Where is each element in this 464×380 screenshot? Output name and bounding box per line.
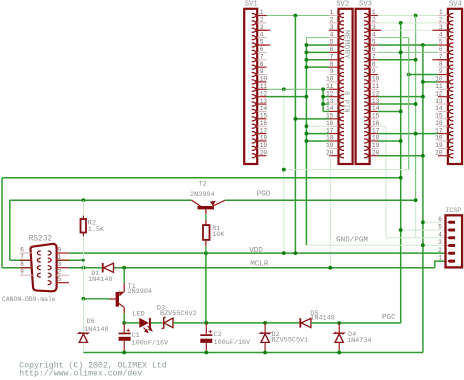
svg-text:19: 19: [326, 142, 334, 149]
wire row17 SV2.17: [306, 133, 329, 135]
wire GND/PGM pale rail y245: [306, 244, 445, 246]
svg-text:1: 1: [439, 9, 443, 16]
diode D2 top lead: [264, 323, 266, 333]
svg-text:1: 1: [260, 9, 264, 16]
wire row10 SV4.10: [423, 81, 438, 83]
wire row16 SV3.16 elbow (pale): [378, 125, 386, 127]
junction row18/V7: [399, 139, 403, 143]
wire row12 SV2.12: [323, 96, 329, 98]
wire row3 SV3.3-SV4.3 (pale): [381, 29, 432, 31]
wire V2 vertical x306 (GND): [305, 45, 307, 245]
junction row9/V8: [407, 73, 411, 77]
junction row12/V10: [421, 95, 425, 99]
junction ICSP pin5/V7: [399, 228, 403, 232]
junction row18/V2: [305, 139, 309, 143]
svg-text:SV3: SV3: [359, 1, 372, 9]
capacitor C2 top lead: [205, 323, 207, 334]
wire row18 SV3.18: [378, 140, 401, 142]
svg-text:19: 19: [260, 142, 268, 149]
svg-text:9: 9: [20, 269, 24, 276]
capacitor C1 top plate: [119, 333, 131, 335]
junction VDD/V1: [294, 251, 298, 255]
junction row13/V9: [414, 102, 418, 106]
connector SV1 (20-pin header): [244, 9, 267, 164]
svg-text:3: 3: [330, 24, 334, 31]
svg-text:6: 6: [20, 246, 24, 253]
wire row5 SV3.5-SV4.5: [378, 44, 438, 46]
junction MCLR/SV2.20 pale: [328, 266, 332, 270]
diode D4 zener bar: [335, 332, 344, 334]
transistor T1 arrow: [118, 292, 123, 296]
svg-text:16: 16: [435, 120, 443, 127]
junction rail/D2: [263, 321, 267, 325]
svg-text:15: 15: [435, 113, 443, 120]
pin stub SV3.3 extension: [370, 29, 382, 31]
capacitor C2 plus mark: [209, 330, 213, 334]
junction row15/V1: [294, 117, 298, 121]
svg-text:SV2: SV2: [336, 1, 349, 9]
capacitor C2 bottom plate: [200, 339, 212, 343]
junction row11/V3: [282, 87, 286, 91]
wire row14 SV3.14: [378, 110, 401, 112]
wire V8 vertical x409 (VDD): [408, 38, 410, 170]
connector SV3 (20-pin header): [356, 9, 380, 164]
transistor T2 base lead: [205, 209, 207, 214]
wire PGD rail y200: [225, 199, 416, 201]
svg-text:20: 20: [326, 149, 334, 156]
junction row7/V9: [414, 58, 418, 62]
svg-text:5: 5: [372, 39, 376, 46]
svg-text:14: 14: [435, 105, 443, 112]
junction row1/V1: [294, 14, 298, 18]
wire row6 SV3.6-SV4.6: [378, 51, 438, 53]
junction row12/V4: [321, 95, 325, 99]
transistor T2 emitter arrow: [210, 201, 216, 206]
svg-text:12: 12: [260, 90, 268, 97]
junction row12/V2: [305, 95, 309, 99]
transistor T2 base bar: [198, 206, 215, 209]
wire row2 SV3.2-SV4.2: [378, 22, 438, 24]
wire V6 vertical x386 (pale): [385, 126, 387, 238]
diode D4 triangle: [335, 334, 343, 343]
capacitor C2 top plate: [200, 334, 212, 336]
wire RTS drive y200: [10, 199, 192, 201]
svg-text:3: 3: [438, 239, 442, 246]
svg-text:20: 20: [435, 149, 443, 156]
wire row12 SV3.12: [378, 96, 423, 98]
svg-text:RS232: RS232: [29, 235, 53, 243]
svg-text:8: 8: [260, 61, 264, 68]
svg-text:15: 15: [372, 113, 380, 120]
wire ICSP pin6 branch: [423, 221, 446, 223]
svg-text:9: 9: [58, 246, 62, 253]
svg-text:2N3904: 2N3904: [190, 191, 214, 199]
svg-text:1.5K: 1.5K: [88, 226, 105, 234]
diode D3 zener bar: [162, 317, 166, 329]
svg-text:9: 9: [372, 68, 376, 75]
wire V1 vertical x295 (VDD): [294, 16, 296, 254]
led LED cathode bar: [149, 318, 151, 328]
svg-text:8: 8: [372, 61, 376, 68]
svg-text:4: 4: [439, 31, 443, 38]
resistor R1 bottom stub: [205, 240, 207, 246]
diode D4 top lead: [338, 323, 340, 333]
svg-text:PGC: PGC: [382, 314, 396, 322]
wire row17 SV3.17-SV4.17: [378, 133, 438, 135]
diode D1 cathode bar: [102, 263, 104, 272]
svg-text:SV4: SV4: [449, 1, 462, 9]
svg-text:6: 6: [330, 46, 334, 53]
wire RTS vertical x9.8: [9, 200, 11, 260]
resistor R1 top stub: [205, 220, 207, 225]
svg-text:CANON-DB9-male: CANON-DB9-male: [2, 296, 56, 303]
svg-text:LED: LED: [133, 311, 145, 319]
wire left edge vertical x2: [1, 178, 3, 268]
wire R2/T1-base pale vertical x83: [82, 236, 84, 298]
junction row17/V2: [305, 132, 309, 136]
junction row16/V2: [305, 124, 309, 128]
svg-text:GND/PGM: GND/PGM: [336, 236, 368, 244]
connector SV2 (20-pin header): [326, 9, 353, 164]
svg-text:16: 16: [260, 120, 268, 127]
svg-text:100uF/16V: 100uF/16V: [214, 339, 252, 347]
junction T1 base/D6: [82, 297, 86, 301]
wire ICSP pin5 branch: [401, 229, 446, 231]
capacitor C1 plus mark: [126, 329, 130, 333]
wire row5 SV2.5: [306, 44, 329, 46]
junction rail/D4: [337, 321, 341, 325]
svg-text:2: 2: [438, 247, 442, 254]
svg-text:18: 18: [260, 135, 268, 142]
svg-text:PGD: PGD: [257, 190, 271, 198]
svg-text:11: 11: [435, 83, 443, 90]
connector DB9 outline: [30, 244, 56, 291]
wire ICSP pin4 branch (PGD): [386, 237, 446, 239]
wire MCLR rail y268: [114, 267, 435, 269]
svg-text:3: 3: [58, 261, 62, 268]
wire SV2.4 elbow: [306, 38, 329, 45]
diode D6 top lead (pale): [82, 299, 84, 333]
svg-text:19: 19: [435, 142, 443, 149]
transistor T1 upper diagonal: [119, 292, 124, 296]
connector ICSP (6-pin): [438, 215, 462, 267]
svg-text:C2: C2: [214, 331, 222, 339]
led LED triangle: [139, 318, 149, 328]
svg-text:1N4148: 1N4148: [310, 315, 334, 323]
wire V4 vertical x323: [322, 89, 324, 111]
wire DB9 pin R2 to base vertical: [57, 259, 84, 261]
svg-text:10K: 10K: [212, 231, 225, 239]
svg-text:15: 15: [260, 113, 268, 120]
svg-text:ICSP: ICSP: [446, 207, 462, 214]
svg-text:BZV55C5V1: BZV55C5V1: [272, 337, 309, 345]
transistor T2 emitter lead: [213, 200, 226, 206]
svg-text:4: 4: [372, 31, 376, 38]
diode D6 bottom lead (pale): [82, 342, 84, 352]
svg-text:BZV55C6V2: BZV55C6V2: [160, 310, 197, 318]
diode D2 triangle: [261, 334, 269, 343]
svg-text:13: 13: [435, 98, 443, 105]
svg-text:13: 13: [260, 98, 268, 105]
junction row10/V10: [421, 80, 425, 84]
connector SV4 (20-pin header): [435, 9, 462, 164]
diode D3 triangle: [164, 318, 173, 328]
transistor T1 lower diagonal: [119, 303, 124, 307]
junction GND-PGM rail/V10: [421, 243, 425, 247]
wire row13 SV3.13: [378, 103, 416, 105]
svg-text:5: 5: [330, 39, 334, 46]
junction row5/V2: [305, 43, 309, 47]
wire T1 collector from MCLR: [123, 268, 125, 284]
wire V3 vertical x284 (VDD): [283, 89, 285, 253]
svg-text:6: 6: [439, 46, 443, 53]
wire row7 SV2.7: [306, 59, 329, 61]
junction PGD rail/V9: [414, 198, 418, 202]
junction row5/V10: [421, 43, 425, 47]
svg-text:2N3904: 2N3904: [128, 288, 152, 296]
junction emitter/LED/C1: [122, 321, 126, 325]
junction row13/V4: [321, 102, 325, 106]
svg-text:7: 7: [372, 53, 376, 60]
svg-text:9: 9: [439, 68, 443, 75]
resistor R2 body: [81, 219, 87, 233]
svg-text:5: 5: [58, 276, 62, 283]
wire V9 vertical x415 (PGD): [415, 16, 417, 201]
svg-text:5: 5: [438, 224, 442, 231]
svg-text:10: 10: [260, 76, 268, 83]
junction row11/V4: [321, 87, 325, 91]
svg-text:12: 12: [435, 90, 443, 97]
transistor T1 base bar: [116, 292, 119, 307]
svg-text:10: 10: [326, 76, 334, 83]
svg-text:2: 2: [260, 17, 264, 24]
resistor R1 body: [203, 225, 210, 240]
wire row15 SV2.15: [295, 118, 329, 120]
svg-text:1: 1: [58, 254, 62, 261]
junction row2/V7: [399, 21, 403, 25]
diode D6 zener bar: [79, 332, 88, 334]
connector DB9 left pins 6-9: [20, 246, 41, 277]
wire row8 SV2.8: [306, 66, 329, 68]
wire SV2.20 to MCLR (pale): [329, 156, 331, 268]
svg-text:1N4148: 1N4148: [88, 276, 112, 284]
resistor R2 bottom stub: [82, 233, 84, 237]
junction VDD pale rail/V3: [282, 168, 286, 172]
capacitor C1 bottom lead: [123, 341, 125, 353]
wire row1 SV3.1-SV4.1: [378, 15, 438, 17]
svg-text:2: 2: [372, 17, 376, 24]
wire row18 SV2.18: [306, 140, 329, 142]
wire D3 to C2 junction: [173, 322, 299, 324]
svg-text:19: 19: [372, 142, 380, 149]
svg-text:14: 14: [260, 105, 268, 112]
svg-text:4: 4: [330, 31, 334, 38]
capacitor C1 top lead: [123, 323, 125, 333]
wire row16 SV2.16: [306, 125, 329, 127]
svg-text:8: 8: [439, 61, 443, 68]
svg-text:7: 7: [260, 53, 264, 60]
capacitor C2 bottom lead: [205, 343, 207, 353]
wire row6 SV2.6: [306, 51, 329, 53]
wire T1 emitter down: [123, 313, 125, 323]
svg-text:4: 4: [260, 31, 264, 38]
svg-text:11: 11: [260, 83, 268, 90]
wire VDD pale rail y170: [284, 169, 409, 171]
junction GND/C2: [204, 351, 208, 355]
junction row17/V9: [414, 132, 418, 136]
junction GND/D4: [337, 351, 341, 355]
junction row20/V10: [421, 154, 425, 158]
svg-text:5: 5: [439, 39, 443, 46]
transistor T1 base stub: [110, 298, 116, 300]
wire row14 SV2.14 elbow: [323, 110, 329, 112]
diode D6 triangle: [79, 334, 87, 343]
pin stub SV4.7 extension: [432, 59, 448, 61]
diode D5 cathode bar: [299, 318, 301, 327]
transistor T1 emitter stub: [123, 307, 125, 313]
wire SV3.4 elbow: [378, 38, 409, 170]
junction MCLR/R2-T1 vertical: [82, 266, 86, 270]
svg-text:1: 1: [330, 9, 334, 16]
svg-text:2: 2: [439, 17, 443, 24]
junction MCLR/T1 collector: [122, 266, 126, 270]
junction rail/C2: [204, 321, 208, 325]
junction row6/V7: [399, 51, 403, 55]
junction GND/C1: [122, 351, 126, 355]
junction base vertical/DB9 wire: [82, 259, 85, 262]
junction row8/V2: [305, 65, 309, 69]
wire R2 top pale vertical: [82, 200, 84, 215]
wire row9 SV4.9: [409, 74, 438, 76]
pin stub SV1.5 extension: [257, 44, 270, 46]
svg-text:6: 6: [372, 46, 376, 53]
svg-text:7: 7: [330, 53, 334, 60]
svg-text:100uF/16V: 100uF/16V: [132, 340, 170, 348]
wire row1 SV1.1-SV2.1: [267, 15, 330, 17]
wire VDD rail y253: [69, 252, 446, 254]
connector DB9 right pins 1-5: [48, 246, 69, 284]
diode D1 triangle: [104, 263, 114, 272]
svg-text:4: 4: [438, 231, 442, 238]
svg-text:11: 11: [372, 83, 380, 90]
junction GND/D2: [263, 351, 267, 355]
wire DB9 pin7 connection: [10, 259, 31, 261]
junction VDD/V3: [282, 251, 286, 255]
wire MCLR to ICSP pin1 elbow: [435, 261, 446, 268]
svg-text:8 PIN: 8 PIN: [342, 91, 350, 113]
junction ICSP pin6/V10: [421, 220, 425, 224]
capacitor C1 bottom plate: [119, 337, 131, 341]
junction row6/V2: [305, 51, 309, 55]
svg-text:6: 6: [438, 216, 442, 223]
diode D5 triangle: [301, 318, 311, 327]
svg-text:1: 1: [438, 255, 442, 262]
svg-text:9: 9: [260, 68, 264, 75]
wire DB9 pin8 connection: [2, 267, 32, 269]
wire to LED anode: [124, 322, 139, 324]
wire row20 SV3.20: [378, 155, 423, 157]
svg-text:7: 7: [20, 254, 24, 261]
wire CTS rail y178: [2, 177, 401, 179]
junction VDD/R1 bottom: [204, 251, 208, 255]
svg-text:1N4734: 1N4734: [347, 337, 371, 345]
diode D2 bottom lead: [264, 342, 266, 352]
pin stub SV1.3 extension: [257, 29, 270, 31]
wire row7 SV3.7: [378, 59, 416, 61]
svg-text:SV1: SV1: [245, 1, 258, 9]
svg-text:6: 6: [260, 46, 264, 53]
wire D5 to PGC elbow: [311, 322, 401, 324]
transistor T2 collector lead: [192, 200, 201, 206]
wire LED to D3: [151, 322, 163, 324]
wire T2 base to R1: [205, 214, 207, 220]
junction row1/V9: [414, 14, 418, 18]
wire MCLR rail left: [69, 267, 102, 269]
junction RTS/R2 top: [82, 198, 86, 202]
transistor T1 collector stub: [123, 283, 125, 291]
svg-text:9: 9: [330, 68, 334, 75]
svg-text:17: 17: [260, 127, 268, 134]
resistor R2 top stub: [82, 216, 84, 219]
svg-text:2: 2: [330, 17, 334, 24]
junction row7/V2: [305, 58, 309, 62]
svg-text:8: 8: [20, 261, 24, 268]
wire V7 vertical x401 (PGC): [400, 23, 402, 323]
svg-text:T2: T2: [198, 180, 206, 188]
wire R1 to VDD rail: [205, 246, 207, 253]
svg-text:20: 20: [260, 149, 268, 156]
wire row13 SV2.13: [323, 103, 329, 105]
led LED light arrows: [144, 326, 152, 333]
wire GND rail: [83, 352, 423, 354]
diode D4 bottom lead: [338, 342, 340, 352]
svg-text:http://www.olimex.com/dev: http://www.olimex.com/dev: [19, 368, 142, 378]
diode D2 zener bar: [261, 332, 270, 334]
wire V10 vertical x423 (GND): [422, 45, 424, 352]
svg-text:2: 2: [58, 269, 62, 276]
wire VDD to bottom rail x206: [205, 253, 207, 323]
svg-text:1: 1: [372, 9, 376, 16]
svg-text:MCLR: MCLR: [250, 261, 269, 269]
wire T1 base: [83, 298, 109, 300]
svg-text:18: 18: [435, 135, 443, 142]
junction CTS rail/V7: [399, 176, 403, 180]
wire row11 SV1.11-SV2.11: [267, 88, 330, 90]
svg-text:10: 10: [372, 76, 380, 83]
svg-text:MEMORY: MEMORY: [342, 30, 351, 59]
junction row14/V7: [399, 110, 403, 114]
pin stub SV4.3 extension: [432, 29, 448, 31]
svg-text:8: 8: [330, 61, 334, 68]
wire row12 SV1.12: [267, 96, 307, 98]
wire V9 pale lower: [415, 200, 417, 238]
svg-text:VDD: VDD: [249, 247, 263, 255]
